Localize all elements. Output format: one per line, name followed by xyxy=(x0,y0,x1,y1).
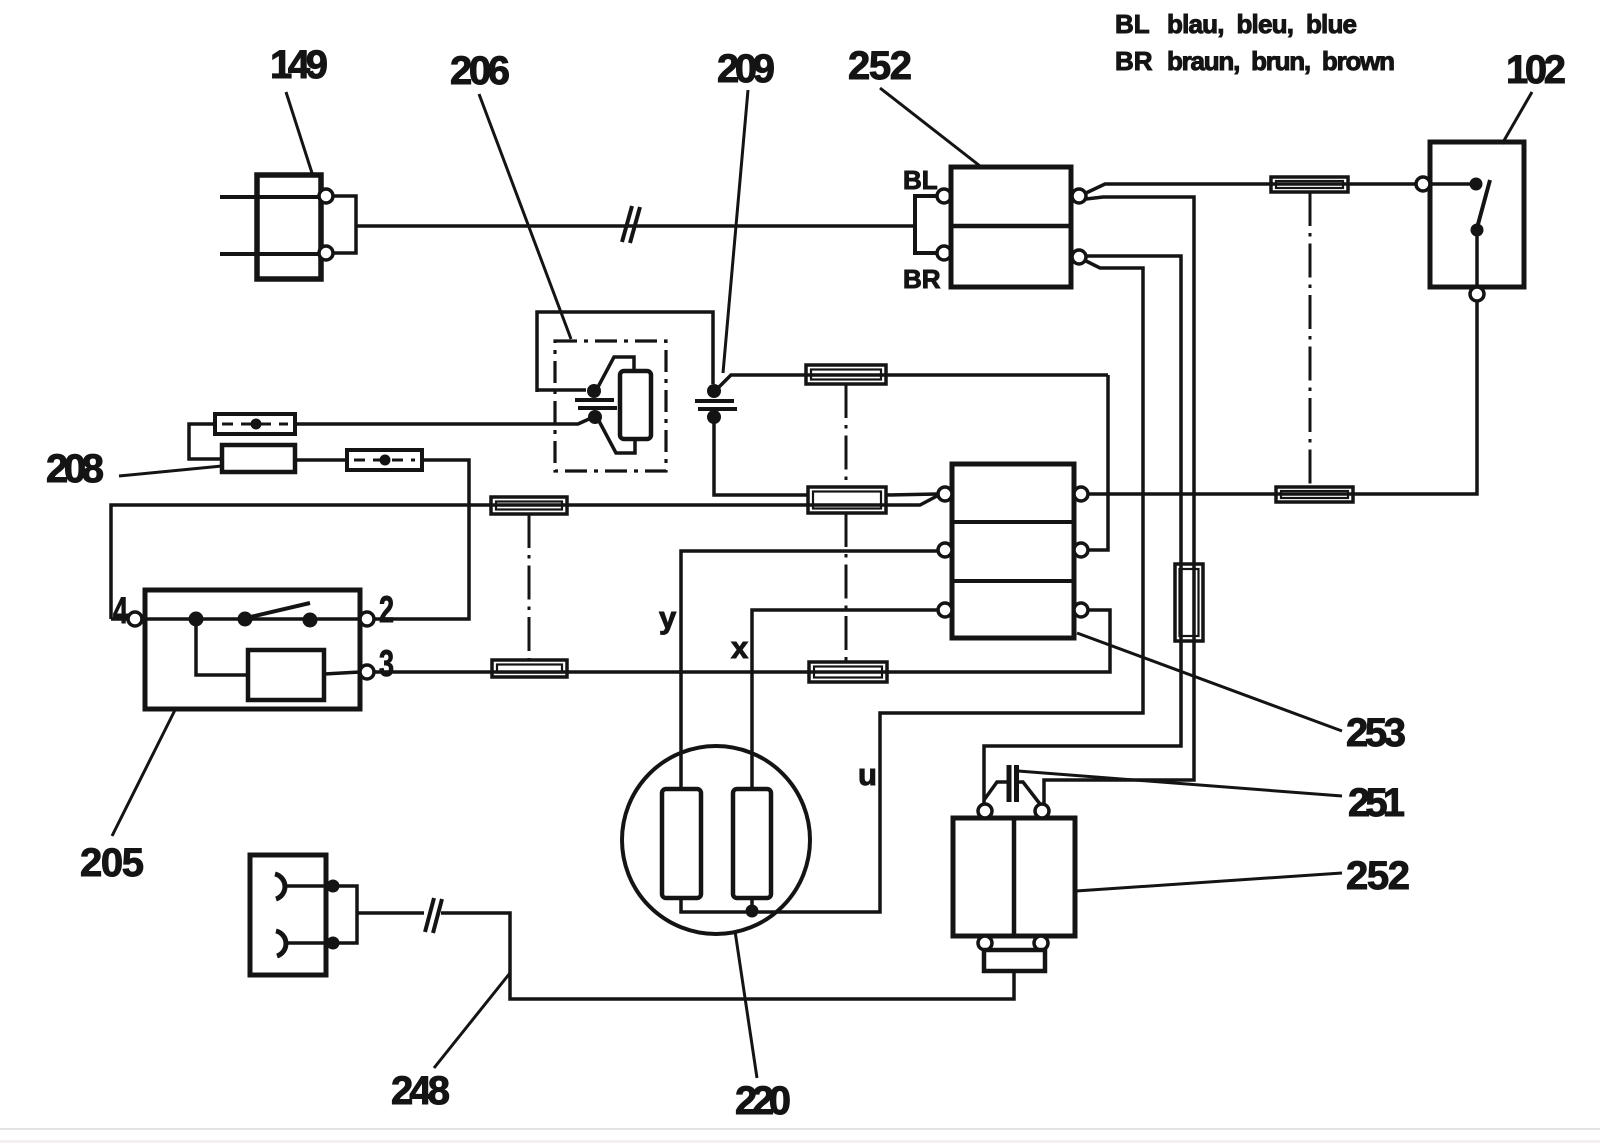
contact breaker 206 plates xyxy=(575,398,614,402)
205 contact dot 2 xyxy=(238,612,253,627)
wire from connector e to 253 top-left (upper) xyxy=(886,494,937,495)
wire 209 bottom down to connector e xyxy=(714,423,808,495)
fuse link 208 upper dashed connector xyxy=(215,414,295,434)
252b bottom plug rect xyxy=(984,950,1045,971)
205 switch lever xyxy=(246,603,310,618)
wire loop left of 208 xyxy=(189,424,222,459)
205 wire dot1 down to resistor xyxy=(196,624,248,675)
svg-text:149: 149 xyxy=(270,43,328,87)
motor bottom wire xyxy=(681,898,752,912)
252b bottom terminal circles xyxy=(978,936,992,950)
svg-text:BR: BR xyxy=(1115,46,1153,76)
switch 102 lever xyxy=(1477,180,1490,228)
contact 209 plates xyxy=(695,399,734,403)
svg-text:206: 206 xyxy=(450,49,510,93)
terminal 3 circle xyxy=(360,665,374,679)
switch 102 upper contact dot xyxy=(1470,178,1483,191)
252b top terminal circles xyxy=(978,804,992,818)
svg-text:2: 2 xyxy=(379,589,394,630)
149 body box xyxy=(257,175,321,279)
svg-text:braun, brun, brown: braun, brun, brown xyxy=(1167,46,1396,76)
capacitor 251 plates xyxy=(1007,765,1012,802)
svg-text:252: 252 xyxy=(848,44,912,88)
svg-text:220: 220 xyxy=(735,1079,791,1123)
wire into 206 breaker top contact xyxy=(537,388,586,392)
chain link line connectors a-b xyxy=(1309,192,1312,487)
149 left stub wire bottom xyxy=(220,252,319,256)
wire 208 to lower dashed connector xyxy=(295,458,347,462)
svg-text:205: 205 xyxy=(80,841,144,885)
wire break symbol (harness interruption) xyxy=(622,206,632,242)
relay 252 left terminal BL circle xyxy=(937,189,951,203)
leader line for 209 xyxy=(723,90,748,373)
149 plug bracket xyxy=(333,196,356,253)
149 terminal circle bottom xyxy=(319,246,333,260)
205 wire dot3 to terminal 2 xyxy=(308,617,360,621)
leader line for 252 bottom xyxy=(1076,873,1342,891)
leader line for 208 xyxy=(119,466,222,476)
contact 209 bottom dot xyxy=(707,410,721,424)
connector i (on wire 3-253) xyxy=(492,660,567,677)
svg-text:102: 102 xyxy=(1506,48,1566,92)
wire break symbol on 248 wire xyxy=(425,898,434,932)
wire B relay252 bottom terminal to motor node u xyxy=(758,261,1143,912)
connector f (on wire 3-253) xyxy=(809,662,887,682)
switch unit 205 box xyxy=(145,590,360,709)
wire D relay252 top terminal to capacitor 251 xyxy=(1044,197,1194,804)
wire relay252 to switch 102 xyxy=(1086,184,1416,193)
contact 209 top dot xyxy=(707,384,721,398)
fuse 208 body xyxy=(222,445,295,472)
svg-text:248: 248 xyxy=(391,1069,450,1113)
chain link line h-i xyxy=(528,514,531,660)
svg-text:209: 209 xyxy=(717,47,775,91)
svg-text:251: 251 xyxy=(1348,781,1405,825)
248 socket contact bottom xyxy=(276,931,286,956)
wire terminal 4 of 205 to 253 top-left (lower) xyxy=(111,496,937,619)
fuse link 208 lower dashed connector xyxy=(347,450,422,470)
205 contact dot 1 xyxy=(189,612,204,627)
253 divider 2 xyxy=(952,579,1074,583)
relay 252 (top) body xyxy=(951,167,1071,287)
wire 248 to bottom 252 xyxy=(357,911,424,915)
relay 252 divider xyxy=(951,224,1071,229)
205 internal wire xyxy=(145,617,308,621)
capacitor left lead xyxy=(984,782,1008,800)
svg-text:BL: BL xyxy=(903,165,938,195)
relay 252 left terminal BR circle xyxy=(937,246,951,260)
motor winding left xyxy=(662,789,701,898)
svg-text:3: 3 xyxy=(379,643,394,684)
switch 102 lower contact dot xyxy=(1471,224,1484,237)
switch 102 box xyxy=(1430,142,1524,287)
relay block 253 body xyxy=(952,464,1074,638)
vertical wire A to 253 middle right xyxy=(1088,375,1108,550)
205 internal resistor box xyxy=(248,650,324,700)
wire C relay252 bottom terminal to 252b left terminal xyxy=(984,256,1181,806)
leader line for 220 xyxy=(735,931,757,1078)
wire fuse 208 to breaker xyxy=(295,419,589,424)
motor junction dot xyxy=(746,905,759,918)
wire 102 bottom to 253 top right xyxy=(1088,301,1477,494)
svg-text:u: u xyxy=(858,757,877,792)
terminal 4 circle xyxy=(128,612,142,626)
leader line for 248 xyxy=(434,973,510,1068)
svg-text:y: y xyxy=(659,600,677,635)
svg-text:x: x xyxy=(731,630,749,665)
248 socket contact top xyxy=(275,874,285,899)
wire x from 253 bottom-left to motor xyxy=(752,610,938,789)
capacitor right lead xyxy=(1017,782,1040,804)
motor 220 circle xyxy=(622,746,810,934)
plug 248 box xyxy=(250,855,326,975)
248 plug bracket xyxy=(339,886,357,943)
terminal 2 circle xyxy=(360,612,374,626)
connector d (on wire 209-253) xyxy=(806,365,886,384)
long wire terminal 3 to 253 bottom right xyxy=(374,610,1110,672)
leader line for 253 xyxy=(1077,633,1342,731)
253 divider 1 xyxy=(952,520,1074,524)
connector a (on wire to 102) xyxy=(1271,177,1348,192)
svg-text:BR: BR xyxy=(903,264,941,294)
motor winding right xyxy=(733,789,771,898)
switch 102 left terminal circle xyxy=(1416,177,1430,191)
wire 209 top to vertical A xyxy=(719,375,1108,387)
252b divider xyxy=(1012,818,1017,936)
condenser top link xyxy=(598,357,634,387)
wire loop over distributor (206 top link to 209) xyxy=(537,312,713,392)
leader line for 251 xyxy=(1018,771,1342,796)
svg-text:blau, bleu, blue: blau, bleu, blue xyxy=(1167,9,1358,39)
205 contact dot 3 xyxy=(303,613,318,628)
leader line for 252 top xyxy=(880,88,980,166)
149 left stub wire top xyxy=(220,195,319,199)
connector e (double, on wires to 253 top-left) xyxy=(808,487,886,513)
205 wire resistor to terminal 3 xyxy=(324,672,360,674)
switch 102 wire to bottom xyxy=(1475,230,1479,288)
contact breaker 206 bottom dot xyxy=(588,410,602,424)
chain link line e-f xyxy=(845,513,848,662)
253 left terminal circles xyxy=(938,487,952,501)
leader line for 149 xyxy=(286,92,312,173)
leader line for 205 xyxy=(112,710,175,836)
relay 252 (top) plug bracket xyxy=(915,196,938,253)
248 contact dot bottom xyxy=(327,937,340,950)
connector h (on wire 4-253) xyxy=(491,497,567,514)
leader line for 102 xyxy=(1502,92,1532,144)
253 right terminal circles xyxy=(1074,487,1088,501)
condenser bottom link xyxy=(599,421,635,453)
contact breaker 206 top dot xyxy=(587,384,601,398)
relay 252 right terminal top circle xyxy=(1072,189,1086,203)
svg-text:BL: BL xyxy=(1115,9,1150,39)
svg-text:4: 4 xyxy=(113,590,128,631)
connector k (vertical on wires C,D) xyxy=(1175,564,1203,641)
149 terminal circle top xyxy=(319,189,333,203)
condenser rect in 206 xyxy=(620,371,651,439)
wire lower connector to terminal 2 of 205 xyxy=(374,460,469,619)
ignition coil 252 (bottom) body xyxy=(953,818,1075,936)
svg-text:208: 208 xyxy=(46,447,104,491)
chain link line d-e xyxy=(845,384,848,487)
wire y from 253 middle-left to motor xyxy=(681,551,938,789)
248 contact dot top xyxy=(327,880,340,893)
leader line for 206 xyxy=(479,94,571,339)
switch 102 bottom terminal circle xyxy=(1470,287,1484,301)
switch 102 wire into contact xyxy=(1430,182,1470,186)
svg-text:252: 252 xyxy=(1346,854,1410,898)
relay 252 right terminal bottom circle xyxy=(1072,250,1086,264)
wire 149 to relay 252 xyxy=(357,224,915,228)
connector b (on wire 253 to 102) xyxy=(1276,487,1353,502)
distributor 206 chain-line box xyxy=(555,341,666,471)
bottom faint rule xyxy=(0,1128,1600,1130)
svg-text:253: 253 xyxy=(1346,711,1406,755)
